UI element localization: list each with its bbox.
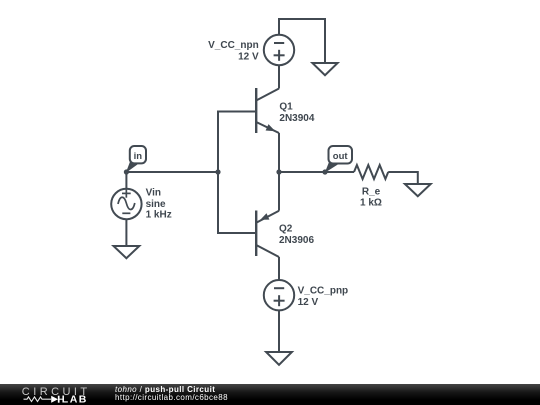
wire out to Q2 emitter [278,172,280,211]
wire Vin to ground [125,219,127,246]
transistor Q1 [256,88,279,133]
svg-text:12 V: 12 V [238,52,259,63]
voltage source V_CC_npn [264,35,294,65]
wire top rail [279,19,325,63]
voltage source V_CC_pnp [264,280,294,310]
CircuitLab logo [0,384,100,405]
node out [322,169,327,174]
voltage source Vin [111,172,141,219]
wire source to Q1 collector [278,65,280,88]
svg-text:R_e: R_e [362,187,381,198]
junction emitters [276,169,281,174]
svg-text:1 kHz: 1 kHz [146,210,172,221]
svg-text:in: in [134,151,143,162]
ground for Vin [114,246,140,258]
wire Q2 collector to source [278,257,280,280]
junction base bus [215,169,220,174]
svg-text:LAB: LAB [62,394,88,405]
svg-text:out: out [333,151,349,162]
svg-text:1 kΩ: 1 kΩ [360,198,382,209]
net flag out [325,146,352,173]
footer url [115,393,228,402]
ground for R_e [405,184,431,196]
wire pnp source to ground [278,310,280,352]
wire base bus [218,112,256,234]
ground top-right [312,63,337,75]
svg-text:V_CC_pnp: V_CC_pnp [298,286,349,297]
net flag in [126,146,146,173]
svg-text:sine: sine [146,199,166,210]
svg-text:V_CC_npn: V_CC_npn [208,40,259,51]
footer bar [0,384,540,405]
wire Q1 emitter to out [278,133,280,172]
transistor Q2 [256,211,279,258]
footer title [115,385,215,394]
node in [124,169,129,174]
svg-text:2N3904: 2N3904 [279,113,314,124]
svg-text:Q2: Q2 [279,224,293,235]
svg-text:Vin: Vin [146,188,161,199]
ground bottom [266,352,292,365]
wire out net [279,171,354,173]
svg-text:Q1: Q1 [279,102,293,113]
svg-text:2N3906: 2N3906 [279,235,314,246]
svg-text:12 V: 12 V [298,297,319,308]
resistor R_e [354,165,388,179]
wire in net [126,171,218,173]
wire resistor to ground [388,172,418,184]
